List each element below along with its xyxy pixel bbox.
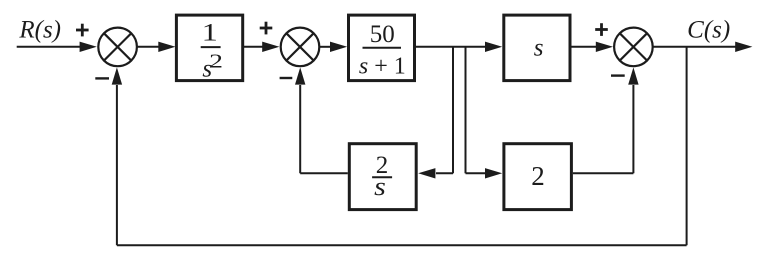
outer feedback wire to S1 [112,67,122,245]
svg-text:s + 1: s + 1 [359,54,406,80]
svg-text:s: s [534,35,544,62]
wire S3 to output [653,42,752,52]
fraction bar H1 [372,176,392,178]
wire G1 to S2 [244,42,279,52]
wire H1 to S2 [295,67,348,173]
value label 2/s [374,152,388,201]
output label C(s) [687,16,730,43]
svg-text:R(s): R(s) [18,16,61,43]
outer feedback takeoff wire [686,47,688,245]
value label s [534,35,544,62]
plus sign at summer S1 [76,24,89,37]
wire S2 to block G2 [320,42,347,52]
minus sign at summer S1 [95,77,109,79]
svg-text:2: 2 [531,161,545,191]
plus sign at summer S2 [260,22,273,35]
value label 50/(s+1) [359,21,406,80]
value label 1/s^2 [202,19,223,82]
block G3 s [504,15,570,81]
plus sign at summer S3 [595,23,608,36]
minus sign at summer S2 [280,77,293,79]
wire S1 to block G1 [138,42,176,52]
minus sign at summer S3 [611,74,625,76]
wire G2 to block G3 [416,42,502,52]
block H1 2/s [349,144,416,210]
node A takeoff wire to block H1 [418,47,453,179]
svg-text:2: 2 [209,50,223,73]
node B takeoff wire to block H2 [466,47,503,179]
summing junction S2 [281,28,320,67]
input label R(s) [18,16,61,43]
svg-text:50: 50 [370,21,395,48]
block G1 1/s^2 [176,15,242,81]
wire G3 to S3 [572,42,614,52]
summing junction S1 [98,28,137,67]
svg-text:C(s): C(s) [687,16,730,43]
svg-text:1: 1 [202,19,218,47]
block H2 2 [504,144,572,210]
fraction bar G1 [201,46,221,48]
fraction bar G2 [363,47,402,49]
value label 2 [531,161,545,191]
wire H2 to S3 [573,67,639,173]
block G2 50/(s+1) [349,15,415,81]
summing junction S3 [614,28,653,67]
wire input to S1 [17,42,97,52]
outer feedback bottom wire [117,244,687,246]
